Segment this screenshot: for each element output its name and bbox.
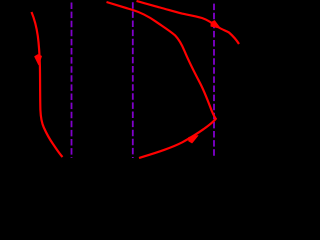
arrow on trajectory 1 (pointing down)	[35, 55, 42, 65]
dashed vertical line 2 (x=132.8)	[132, 2, 134, 158]
trajectory 3 (top right curve)	[137, 1, 240, 44]
dashed vertical line 3 (x=214)	[213, 4, 215, 158]
dashed vertical line 1 (x=71)	[71, 3, 73, 159]
trajectory 1 (left curve)	[32, 12, 63, 157]
arrow on trajectory 2 lower branch (pointing up-right)	[189, 136, 198, 143]
trajectory 2 (upper middle, steep descent to corner, then back down-left)	[107, 2, 216, 158]
arrow on trajectory 3 (pointing down-right)	[211, 21, 220, 28]
